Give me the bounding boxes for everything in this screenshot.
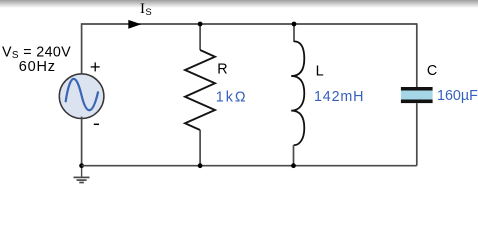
wire: R branch lower <box>199 130 201 166</box>
svg-text:160µF: 160µF <box>437 88 478 104</box>
polarity label - <box>94 123 99 125</box>
node: bottom junction at R <box>198 163 203 168</box>
node: bottom junction at L <box>291 163 296 168</box>
wire: top rail <box>82 23 417 25</box>
wire: L branch lower <box>293 145 295 166</box>
wire: L branch upper <box>293 24 295 42</box>
polarity label + <box>91 62 100 71</box>
svg-text:C: C <box>427 63 437 79</box>
svg-text:L: L <box>316 63 324 79</box>
svg-text:1kΩ: 1kΩ <box>216 89 248 105</box>
svg-text:142mH: 142mH <box>314 89 364 105</box>
node: top junction at L <box>292 22 297 27</box>
capacitor C <box>401 87 433 103</box>
wire: right branch lower <box>416 103 418 166</box>
wire: right branch upper <box>416 23 418 87</box>
svg-text:60Hz: 60Hz <box>19 59 56 75</box>
ground <box>74 166 90 183</box>
wire: left branch upper <box>81 23 83 74</box>
node: bottom-left junction <box>79 163 84 168</box>
current arrow Is <box>128 20 141 29</box>
wire: left branch lower <box>81 117 83 166</box>
AC source VS <box>59 74 104 119</box>
inductor L <box>291 41 304 145</box>
svg-text:R: R <box>217 61 227 77</box>
resistor R <box>185 50 215 130</box>
wire: bottom rail <box>82 165 417 167</box>
wire: R branch upper <box>199 24 201 50</box>
node: top junction at R <box>198 22 203 27</box>
